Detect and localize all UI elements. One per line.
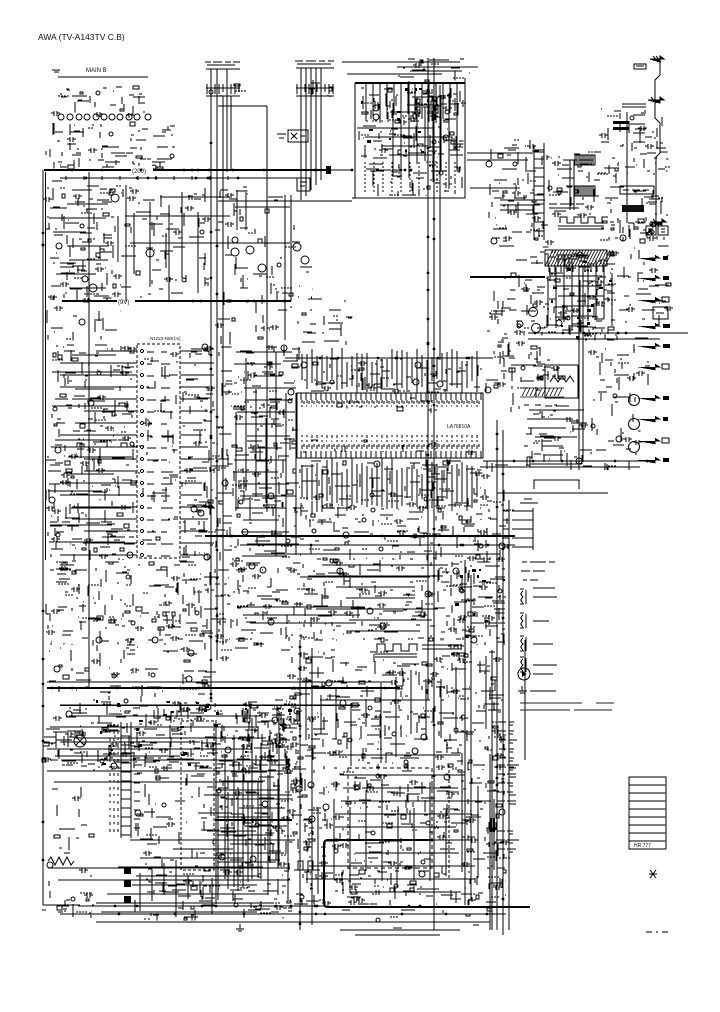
wire	[347, 73, 442, 75]
IC LA76810A (jungle)	[297, 393, 483, 458]
wire	[491, 650, 493, 930]
connector XS901	[121, 722, 131, 838]
resistor	[62, 189, 115, 257]
degauss coil L901	[375, 644, 462, 657]
node	[58, 89, 142, 101]
wire rows left col	[49, 190, 109, 288]
section: arrows labels	[615, 246, 673, 340]
shield bar 1	[613, 121, 629, 124]
section: power left AY	[52, 787, 94, 853]
wire	[141, 561, 230, 650]
resistor	[555, 252, 614, 335]
node	[549, 152, 608, 204]
wire	[342, 61, 460, 63]
wire	[397, 66, 478, 68]
capacitor	[303, 835, 509, 906]
wire	[160, 196, 230, 198]
wire	[168, 205, 170, 301]
section: cluster V	[234, 345, 300, 390]
wire bundle top-middle	[393, 78, 465, 189]
IC N601 (audio amp, dashed)	[348, 768, 432, 868]
capacitor	[558, 251, 619, 316]
section: center low AH	[301, 559, 457, 642]
node	[146, 797, 219, 835]
capacitor	[46, 566, 134, 643]
section: power input AW	[42, 700, 95, 770]
wire	[363, 86, 463, 122]
capacitor	[429, 442, 475, 455]
transistor	[548, 186, 552, 190]
node	[615, 248, 660, 335]
wire	[250, 622, 356, 624]
transistor	[576, 458, 582, 464]
wire dark segment	[491, 818, 494, 832]
section: power dense AZ	[215, 771, 296, 918]
wire	[301, 831, 505, 905]
section: right-mid fill1	[511, 341, 545, 414]
wire	[361, 702, 430, 770]
IF box	[620, 186, 654, 194]
capacitor	[287, 652, 466, 704]
wire bundle header B	[301, 68, 321, 200]
transistor	[191, 344, 228, 560]
capacitor	[588, 350, 645, 381]
transistor	[79, 319, 85, 325]
section: mid bottom AC	[141, 650, 229, 702]
wire	[43, 904, 80, 906]
capacitor	[480, 474, 505, 562]
wire	[182, 347, 232, 560]
node	[218, 771, 295, 913]
capacitor	[248, 345, 275, 378]
wire B+ bus	[47, 687, 400, 689]
node	[546, 252, 616, 340]
capacitor	[361, 713, 370, 718]
wire	[240, 544, 515, 546]
section: left column parts	[43, 181, 115, 303]
wire	[300, 520, 482, 560]
wire	[592, 380, 640, 470]
wire	[217, 88, 239, 97]
capacitor	[234, 403, 286, 535]
wire bundle mid-left rows	[233, 352, 299, 556]
node	[304, 359, 461, 392]
wire	[60, 704, 360, 706]
wire	[359, 126, 463, 158]
wire	[205, 535, 515, 537]
node	[441, 652, 505, 756]
capacitor	[43, 194, 114, 303]
resistor	[511, 273, 516, 277]
capacitor	[230, 562, 303, 609]
capacitor	[67, 137, 97, 153]
transistor	[620, 116, 654, 241]
section: cluster W below	[232, 389, 304, 561]
wire	[467, 159, 528, 161]
svg-text:LA76810A: LA76810A	[447, 424, 471, 430]
resistor	[258, 209, 269, 243]
wire	[502, 430, 504, 935]
IC pins	[301, 393, 481, 458]
capacitor	[448, 585, 506, 649]
capacitor	[489, 315, 498, 320]
node	[309, 830, 510, 904]
resistor	[57, 899, 89, 910]
node	[291, 651, 449, 700]
capacitor	[443, 182, 452, 187]
wire	[48, 501, 135, 560]
node	[517, 348, 540, 390]
wire	[218, 200, 352, 202]
wire	[302, 299, 352, 345]
wire	[400, 59, 470, 80]
wire	[60, 177, 302, 179]
wire	[433, 652, 505, 770]
transistor	[242, 708, 300, 772]
resistor	[557, 165, 581, 194]
capacitor	[626, 268, 673, 312]
wire	[500, 209, 534, 211]
connector XS601	[503, 508, 533, 550]
section: right connector col	[599, 109, 670, 243]
wire bundle audio horizontals	[306, 775, 491, 892]
legend components column	[518, 562, 557, 693]
wire	[617, 246, 668, 340]
transistor	[485, 387, 491, 393]
jumper JP1	[575, 155, 595, 165]
transistor	[232, 237, 238, 243]
section: audio BC	[287, 650, 466, 704]
wire header underline	[206, 95, 240, 97]
section: center low AI dense	[448, 562, 506, 649]
wire	[216, 69, 218, 660]
wire header underline	[296, 95, 334, 97]
section: power left AY2	[42, 862, 94, 918]
section: power mid AZ2	[135, 771, 219, 858]
capacitor	[503, 144, 554, 245]
wire bundle power vert low	[140, 860, 212, 917]
transistor	[96, 575, 135, 643]
transistor V204	[529, 308, 538, 317]
capacitor	[497, 382, 506, 387]
wire	[528, 338, 660, 340]
diode	[455, 569, 505, 638]
IC pin numbers	[301, 400, 479, 449]
wire	[301, 770, 505, 830]
resistor	[392, 168, 460, 189]
wire	[266, 395, 268, 512]
wire	[218, 773, 292, 918]
transistor	[96, 91, 100, 95]
capacitor	[104, 701, 293, 774]
wire	[347, 398, 481, 408]
capacitor	[324, 774, 476, 828]
resistor	[137, 776, 160, 816]
wire	[236, 190, 238, 230]
resistor	[498, 154, 538, 240]
mark	[649, 870, 657, 878]
transistor	[209, 90, 213, 94]
wire verticals mid-left	[118, 192, 198, 293]
transistor	[53, 371, 134, 453]
wire	[52, 787, 87, 853]
wire	[301, 560, 450, 640]
wire	[136, 771, 215, 858]
section: audio AC2	[236, 704, 300, 772]
node	[362, 708, 435, 763]
wire	[46, 123, 175, 168]
wire bundle left rows	[48, 355, 132, 542]
wire bundle audio verticals	[318, 772, 494, 893]
capacitor	[306, 561, 435, 630]
wire	[61, 87, 145, 113]
resistor	[666, 283, 671, 286]
transistor	[376, 918, 380, 922]
connector pin 2	[124, 880, 131, 887]
audio top verticals	[306, 656, 486, 766]
section: audio BF	[430, 652, 506, 772]
transistor	[152, 611, 199, 643]
node	[116, 186, 209, 297]
capacitor	[143, 822, 175, 856]
diode	[551, 261, 612, 339]
IC N201 (IF amp, hatched)	[545, 250, 607, 266]
wire	[483, 466, 640, 468]
wire	[496, 420, 498, 930]
wire	[97, 700, 290, 770]
wire	[235, 346, 300, 390]
transistor circles	[89, 194, 309, 292]
node	[300, 521, 482, 559]
wire	[230, 96, 232, 170]
node	[302, 560, 457, 640]
svg-text:MAIN B: MAIN B	[86, 68, 107, 74]
wire	[58, 879, 290, 881]
wire	[311, 648, 313, 925]
node	[47, 188, 114, 294]
wire bundle IF verticals	[548, 255, 612, 332]
wire	[470, 575, 472, 900]
transistor	[370, 461, 428, 512]
wire	[366, 161, 462, 196]
node	[183, 365, 228, 553]
wire	[47, 310, 120, 340]
section: right of rails	[489, 273, 516, 340]
section: below IC dense	[300, 459, 491, 524]
section: mid-left parts	[112, 186, 211, 297]
DL201 glyph	[550, 376, 574, 382]
section: power strip BA	[290, 773, 313, 904]
wire bundle above IC	[302, 348, 477, 393]
resistor	[603, 168, 645, 243]
resistor	[494, 345, 515, 388]
wire dashed	[448, 765, 450, 880]
resistor	[346, 781, 502, 832]
wire inner border	[88, 172, 90, 688]
wire	[215, 187, 248, 345]
wire	[470, 276, 545, 278]
connector CN102	[534, 145, 544, 240]
node	[76, 893, 94, 912]
node	[322, 301, 346, 333]
node	[361, 88, 466, 121]
wire	[521, 351, 558, 380]
resistor	[291, 784, 308, 850]
capacitor	[599, 126, 659, 241]
node	[593, 349, 649, 400]
section: pin numbers top	[337, 398, 481, 413]
label column (vertical text)	[110, 724, 118, 832]
svg-text:N1223-N88 [m]: N1223-N88 [m]	[150, 336, 181, 341]
resistor	[62, 562, 130, 623]
resistor	[268, 362, 298, 375]
wire	[141, 651, 216, 702]
diode	[96, 700, 292, 766]
node	[495, 140, 543, 238]
wire	[578, 267, 580, 470]
capacitor	[184, 346, 220, 508]
resistor	[53, 351, 136, 485]
node	[524, 254, 547, 328]
wire	[489, 760, 491, 930]
terminal arrow	[650, 219, 666, 225]
resistor	[307, 565, 433, 642]
capacitor	[552, 161, 594, 218]
transistor	[239, 389, 294, 543]
tuner TU101	[355, 83, 465, 198]
tuner rows	[357, 128, 451, 155]
resistor	[113, 224, 169, 288]
wire	[231, 563, 300, 650]
section: mid lower Z	[135, 561, 232, 652]
resistor	[184, 660, 207, 684]
wire	[290, 707, 360, 770]
label header A	[205, 62, 240, 65]
section: IF cluster2	[514, 252, 547, 335]
transistor	[340, 700, 352, 742]
section: below bus left	[47, 306, 120, 340]
transistor	[334, 831, 425, 888]
node	[242, 704, 298, 767]
terminal arrow	[650, 56, 664, 62]
wire	[236, 706, 300, 770]
headphone jack XS602	[294, 861, 320, 878]
AZ tangle v	[218, 775, 288, 900]
transistor	[109, 132, 174, 169]
hatch label row	[520, 388, 564, 397]
wire	[355, 82, 465, 84]
transistor	[49, 497, 133, 558]
wire	[309, 80, 330, 97]
wire	[601, 111, 668, 240]
node	[303, 447, 436, 452]
resistor	[533, 304, 537, 307]
section: left bottom AB	[49, 645, 143, 700]
node	[453, 562, 505, 636]
wire	[352, 197, 465, 199]
capacitor	[112, 189, 211, 297]
delay line DL201	[545, 365, 578, 398]
node	[285, 246, 296, 248]
relay K101	[288, 130, 308, 142]
section: right of IC AJ	[480, 461, 514, 562]
node	[294, 709, 360, 757]
capacitor	[398, 106, 452, 125]
wire	[60, 741, 200, 743]
wire	[427, 58, 429, 700]
node	[225, 194, 256, 233]
shield bar 2	[613, 127, 629, 130]
wire	[311, 358, 482, 392]
section: header B components	[309, 80, 332, 97]
wire bundle power horiz mid	[173, 795, 292, 849]
node	[259, 258, 312, 330]
section: top-left caps labels	[51, 86, 145, 118]
section: right of striping	[485, 331, 515, 393]
ground	[61, 900, 69, 911]
node	[374, 406, 398, 407]
wire jog	[218, 105, 267, 107]
section: below IC mid	[300, 518, 487, 562]
section: left of IC parts	[45, 345, 144, 500]
capacitor	[91, 659, 139, 677]
capacitor C101-C111 row	[58, 114, 151, 120]
node	[150, 652, 197, 702]
wire	[582, 267, 584, 462]
IC N801 (standby, dashed)	[181, 721, 214, 870]
wire	[320, 699, 430, 701]
video out transistor V201	[629, 395, 640, 406]
degauss symbol	[558, 217, 608, 229]
transistor	[373, 105, 449, 120]
fuse F901	[74, 735, 86, 747]
wire	[96, 921, 490, 923]
resistor	[251, 705, 296, 740]
capacitor	[79, 868, 93, 898]
section: center sparse AK	[302, 299, 352, 345]
section: pin numbers bottom	[303, 440, 475, 455]
resistor	[311, 461, 477, 524]
capacitor	[215, 791, 296, 910]
section: tuner interior top	[361, 86, 466, 125]
capacitor	[428, 408, 437, 413]
capacitor	[215, 193, 234, 328]
jumper JP2	[575, 186, 595, 196]
wire	[300, 576, 430, 578]
resistor	[227, 217, 243, 321]
wire bundle power verticals	[216, 717, 288, 904]
transistor	[151, 650, 194, 682]
capacitor	[72, 796, 81, 801]
section: right-mid fill2	[588, 344, 650, 400]
node	[489, 311, 504, 340]
resistor	[438, 654, 498, 772]
section: right-mid AQ	[524, 405, 592, 470]
wire	[291, 773, 312, 904]
section: audio dense BG	[301, 770, 505, 832]
wire bus B+ (200)	[44, 169, 330, 171]
transistor	[217, 789, 268, 907]
wire	[528, 332, 688, 334]
section: IF cluster	[545, 251, 619, 340]
node	[600, 109, 670, 240]
AZ tangle h	[216, 772, 291, 862]
transistor	[368, 706, 427, 764]
terminal arrow	[648, 97, 664, 103]
wire	[237, 606, 365, 608]
capacitor	[552, 417, 588, 441]
node	[234, 355, 298, 383]
